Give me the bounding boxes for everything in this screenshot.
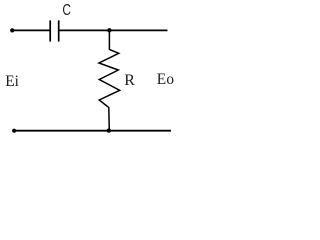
node junction bottom (107, 128, 111, 132)
capacitor C1 right plate (58, 20, 60, 41)
terminal dot Ei top (10, 28, 14, 32)
resistor R (99, 31, 120, 131)
svg-text:R: R (124, 72, 135, 89)
terminal dot Ei bottom (12, 129, 16, 133)
capacitor C1 left plate (49, 20, 51, 41)
wire bottom (14, 130, 171, 132)
wire top (capacitor to output) (59, 29, 168, 31)
node junction top (107, 28, 111, 32)
svg-text:Eo: Eo (157, 71, 175, 88)
svg-text:C: C (62, 2, 71, 19)
svg-text:Ei: Ei (5, 73, 19, 90)
wire input top (terminal to capacitor) (12, 29, 50, 31)
